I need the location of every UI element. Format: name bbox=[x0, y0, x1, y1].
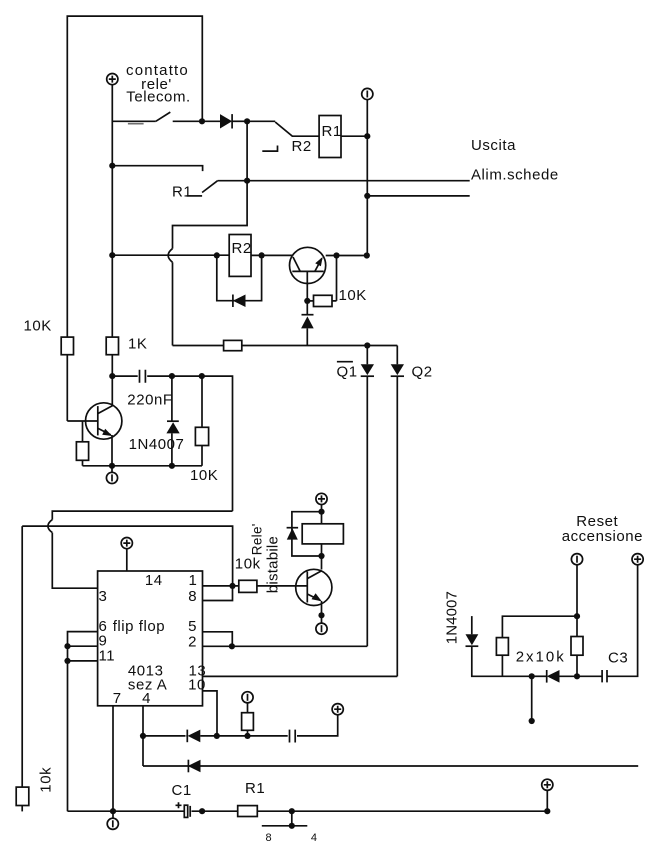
wire A: cap junction to FF pin 3 bbox=[52, 511, 232, 519]
svg-text:R1: R1 bbox=[245, 780, 265, 797]
resistor 10k (horizontal) bbox=[239, 580, 257, 592]
wire pin 2 to Q1 branch bbox=[203, 645, 368, 647]
node pin P12 (circle plus) bottom right bbox=[544, 808, 550, 814]
resistor R1 (horizontal) bbox=[238, 806, 258, 817]
svg-text:Rele': Rele' bbox=[249, 523, 264, 555]
wire pin4 corner to right (second diode row) bbox=[143, 765, 638, 767]
IC U1 4013 flip flop (box) bbox=[98, 571, 203, 706]
switch contact Telecom (wire + arm) bbox=[112, 120, 156, 122]
wire pin 5 down to pin 2 bbox=[203, 632, 233, 647]
node pin P5 (circle plus) relay supply bbox=[316, 493, 327, 504]
wire collector right bbox=[326, 255, 367, 257]
capacitor (bottom mid) bbox=[290, 730, 296, 743]
wire top-left loop bbox=[67, 16, 202, 337]
svg-text:Alim.schede: Alim.schede bbox=[471, 166, 559, 183]
wire bbox=[232, 120, 247, 122]
resistor 1K (vertical) bbox=[106, 337, 118, 355]
svg-text:Q2: Q2 bbox=[412, 364, 433, 381]
svg-text:1N4007: 1N4007 bbox=[129, 436, 185, 453]
diode (points left) bbox=[547, 670, 560, 683]
freewheel diode loop across coil bbox=[217, 255, 262, 300]
svg-text:4: 4 bbox=[311, 832, 318, 844]
svg-text:R2: R2 bbox=[292, 138, 312, 155]
node pin P4 (circle plus) above pin 14 bbox=[121, 538, 132, 549]
svg-text:1K: 1K bbox=[128, 336, 147, 353]
label contatto rele' Telecom. bbox=[126, 62, 191, 105]
arm bbox=[202, 181, 218, 193]
node pin P11 (circle bar) bbox=[112, 811, 114, 818]
svg-text:220nF: 220nF bbox=[127, 392, 172, 409]
resistor 10K (vertical, right of diode) bbox=[201, 376, 203, 427]
node pin P7 (circle bar) bbox=[242, 692, 253, 703]
wire hop over wire B bbox=[48, 520, 52, 533]
wire node to relay coil R2 bbox=[112, 254, 229, 256]
svg-text:4: 4 bbox=[142, 690, 151, 707]
resistor 2x10k right (vertical) bbox=[571, 637, 583, 656]
node pin P2 (circle bar) top bbox=[362, 88, 373, 99]
svg-text:bistabile: bistabile bbox=[264, 536, 281, 593]
capacitor C3 bbox=[602, 670, 607, 682]
resistor 10K (horizontal) at transistor base bbox=[304, 298, 310, 304]
diode (points left) bbox=[188, 760, 201, 773]
svg-text:C1: C1 bbox=[172, 782, 192, 799]
svg-text:11: 11 bbox=[99, 647, 116, 664]
svg-text:8: 8 bbox=[188, 588, 197, 605]
wire P2 down to transistor collector node bbox=[366, 100, 368, 256]
resistor 10k (far left bottom, vertical) bbox=[21, 526, 23, 787]
wire Alim.schede lower bbox=[367, 195, 469, 197]
svg-text:R1: R1 bbox=[172, 184, 192, 201]
diode (points left) bbox=[233, 295, 246, 308]
wire coil to transistor base bbox=[251, 254, 292, 256]
relay contact R2 (common wire + arm) bbox=[247, 120, 275, 122]
svg-text:2: 2 bbox=[188, 633, 197, 650]
capacitor 220nF bbox=[112, 376, 232, 511]
wire pin 1 to resistor bbox=[203, 585, 239, 587]
transistor Q-B (left) bbox=[86, 403, 122, 439]
svg-text:1: 1 bbox=[189, 572, 198, 589]
node pin P9 (circle bar) bbox=[571, 554, 582, 565]
svg-text:7: 7 bbox=[113, 690, 122, 707]
svg-text:Q1: Q1 bbox=[337, 364, 358, 381]
resistor 10K (left, vertical) bbox=[61, 337, 73, 355]
svg-text:C3: C3 bbox=[608, 650, 628, 667]
wire bottom rail bbox=[68, 810, 184, 812]
diode 1N4007 (points up) bbox=[171, 376, 173, 421]
transistor Q-C (bistable driver) bbox=[296, 569, 332, 605]
svg-text:3: 3 bbox=[99, 588, 108, 605]
svg-text:R2: R2 bbox=[232, 240, 252, 257]
contact mark (L shape) bbox=[262, 146, 277, 152]
node pin P8 (circle plus) bbox=[332, 704, 343, 715]
svg-text:1N4007: 1N4007 bbox=[444, 591, 461, 644]
svg-text:Uscita: Uscita bbox=[471, 137, 516, 154]
svg-text:10K: 10K bbox=[339, 287, 367, 304]
svg-text:accensione: accensione bbox=[562, 528, 643, 545]
relay contact R1 (common wire with tick) bbox=[112, 166, 202, 171]
wire pin 7 down bbox=[112, 706, 114, 811]
transistor Q-A (top, circle) bbox=[290, 247, 326, 283]
ground wire bbox=[83, 465, 203, 467]
wire Uscita/Alim.schede upper bbox=[218, 180, 470, 182]
diode D2 (points up) bbox=[306, 301, 308, 315]
svg-text:R1: R1 bbox=[322, 123, 342, 140]
wire reset node bbox=[576, 565, 578, 637]
wire from P1 down bbox=[111, 85, 113, 337]
wire B: left 10k to FF pin 1 bbox=[22, 526, 232, 586]
wire hop over horizontal bbox=[168, 249, 172, 263]
svg-text:10k: 10k bbox=[235, 556, 261, 573]
stub with node bbox=[531, 676, 533, 721]
wire pins 6,9,11 bus bbox=[68, 632, 98, 812]
node supply pin P1 (circle plus) top-left bbox=[107, 74, 118, 85]
wire pin 10 down bbox=[203, 691, 218, 736]
svg-text:10K: 10K bbox=[24, 318, 52, 335]
wire pin 14 bbox=[126, 549, 128, 571]
svg-text:14: 14 bbox=[145, 572, 163, 589]
svg-text:Telecom.: Telecom. bbox=[126, 88, 190, 105]
relay coil bistable (box) bbox=[302, 524, 343, 544]
diode (points left) bbox=[188, 730, 201, 743]
diode Q2-branch (points down) bbox=[396, 346, 398, 365]
svg-text:10K: 10K bbox=[190, 467, 218, 484]
diode D1 (points right) bbox=[220, 114, 232, 128]
resistor (base-emitter, vertical) bbox=[82, 421, 84, 442]
wire switch to diode bbox=[173, 120, 220, 122]
diode 1N4007 (points down, stub) bbox=[471, 616, 473, 634]
svg-text:2x10k: 2x10k bbox=[516, 649, 566, 666]
wire reset bottom bbox=[529, 673, 535, 679]
resistor 2x10k left (vertical) bbox=[496, 638, 508, 656]
wire pin 8 up to pin 1 node bbox=[203, 586, 233, 601]
wire from diode node down and left bbox=[173, 121, 248, 248]
wire long horizontal with resistor bbox=[173, 345, 224, 347]
svg-text:flip flop: flip flop bbox=[113, 618, 165, 635]
wire pin 4 down bbox=[142, 706, 144, 766]
node pin P6 (circle bar) below emitter bbox=[316, 623, 327, 634]
svg-text:8: 8 bbox=[266, 832, 273, 844]
node junction bbox=[199, 118, 205, 124]
wire FF pin4 node to cap (bottom mid) bbox=[143, 735, 186, 737]
svg-text:10k: 10k bbox=[38, 767, 55, 793]
relay coil R2 (box) bbox=[229, 235, 251, 277]
resistor (vertical) bbox=[247, 703, 249, 713]
freewheel diode loop (points up) bbox=[292, 512, 322, 556]
node pin P3 (circle bar) bbox=[111, 466, 113, 473]
wire R1 coil to vertical bbox=[341, 135, 367, 137]
stub 8-4 bbox=[291, 811, 293, 826]
node pin P10 (circle plus) bbox=[632, 554, 643, 565]
relay coil R1 (box) bbox=[319, 116, 341, 158]
wire pin 13 to Q2 branch bbox=[203, 675, 398, 677]
diode Q1-branch (points down) bbox=[366, 346, 368, 365]
contact mark bbox=[187, 195, 203, 197]
